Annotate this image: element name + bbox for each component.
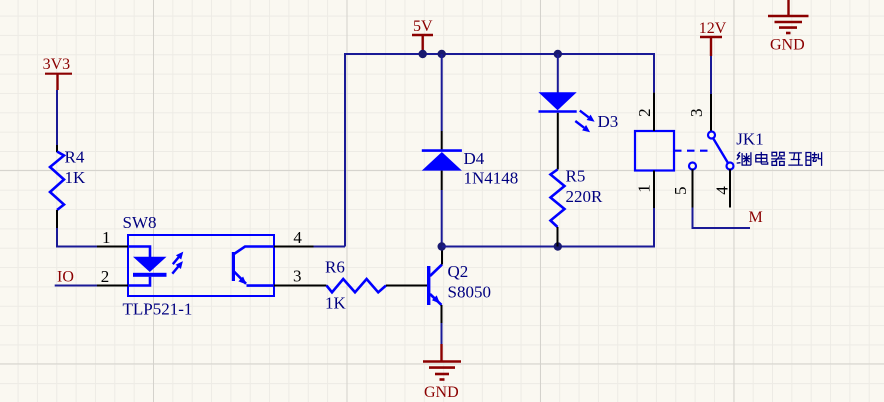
svg-text:3: 3 — [687, 109, 706, 118]
resistor R6 — [325, 258, 427, 313]
D3 emission arrows — [575, 111, 594, 133]
svg-text:3V3: 3V3 — [43, 56, 71, 73]
optocoupler SW8 box — [123, 213, 275, 319]
dashed link coil to contact — [674, 150, 708, 152]
svg-text:R4: R4 — [65, 148, 85, 167]
svg-text:JK1: JK1 — [736, 130, 763, 149]
pin 5 relay — [671, 169, 692, 207]
ground GND top — [768, 0, 809, 53]
wire 12V to pin3 — [710, 56, 712, 94]
wire Q2 emitter to GND — [441, 323, 443, 344]
wire D4 to junction — [441, 190, 443, 247]
LED inside SW8 — [128, 247, 167, 286]
resistor R5 — [551, 167, 604, 247]
junction D4 top — [438, 50, 446, 58]
svg-text:R5: R5 — [566, 167, 586, 186]
wire top 5V rail — [314, 51, 655, 247]
svg-text:1K: 1K — [325, 294, 347, 313]
svg-text:4: 4 — [293, 228, 302, 247]
svg-text:2: 2 — [635, 108, 654, 117]
svg-text:1K: 1K — [65, 168, 87, 187]
wire R4 to SW8 pin1 — [57, 228, 97, 247]
junction R5 bottom — [554, 242, 562, 250]
transistor Q2 — [427, 248, 491, 323]
svg-text:D4: D4 — [464, 149, 485, 168]
svg-text:5V: 5V — [413, 18, 433, 35]
svg-text:GND: GND — [424, 384, 459, 401]
pin 1 — [97, 228, 128, 247]
resistor R4 — [50, 145, 86, 228]
svg-text:2: 2 — [101, 267, 110, 286]
pin 2 — [97, 267, 128, 286]
svg-text:220R: 220R — [566, 187, 604, 206]
svg-text:5: 5 — [671, 187, 690, 196]
pin 3 relay — [687, 94, 711, 132]
contact circle pin5 — [689, 163, 696, 170]
pin 1 relay — [635, 171, 655, 209]
wire rail to D4 — [441, 54, 443, 131]
svg-text:12V: 12V — [699, 20, 727, 37]
wire bottom rail to relay — [442, 208, 654, 247]
svg-text:D3: D3 — [598, 112, 619, 131]
power 3V3 — [43, 56, 72, 90]
contact common circle — [708, 132, 715, 139]
svg-text:1N4148: 1N4148 — [464, 169, 519, 188]
wire 3V3 to R4 — [56, 90, 58, 145]
pin 3 — [274, 267, 327, 286]
power 12V — [699, 20, 727, 56]
pin D3 to R5 — [557, 113, 559, 170]
svg-text:IO: IO — [57, 269, 74, 286]
LED D3 — [539, 92, 619, 131]
svg-text:4: 4 — [712, 186, 731, 195]
diode D4 1N4148 — [422, 131, 518, 190]
svg-text:3: 3 — [293, 267, 302, 286]
svg-text:TLP521-1: TLP521-1 — [123, 300, 193, 319]
ground GND bottom — [423, 344, 461, 401]
pin 2 relay — [635, 93, 654, 131]
relay coil JK1 box — [635, 131, 674, 171]
junction D3 top — [554, 50, 562, 58]
svg-text:1: 1 — [102, 228, 111, 247]
svg-text:S8050: S8050 — [448, 283, 491, 302]
phototransistor inside SW8 — [232, 247, 274, 286]
wire pin5 to M — [693, 208, 751, 229]
svg-text:1: 1 — [635, 184, 654, 193]
comment 继电器五脚 (vector strokes) — [737, 152, 822, 166]
pin 4 — [274, 228, 314, 247]
svg-text:SW8: SW8 — [123, 213, 157, 232]
switch arm — [713, 138, 728, 163]
junction 5V stub — [419, 50, 427, 58]
pin 4 relay — [712, 169, 731, 207]
svg-text:M: M — [749, 209, 763, 226]
svg-text:GND: GND — [770, 36, 805, 53]
power 5V — [412, 18, 433, 51]
wire IO to SW8 pin2 — [55, 285, 97, 287]
wire rail to D3 — [557, 54, 559, 93]
svg-text:Q2: Q2 — [448, 262, 469, 281]
junction Q2 collector node — [438, 242, 446, 250]
svg-text:R6: R6 — [325, 258, 345, 277]
LED emission arrows — [172, 252, 183, 274]
contact NO circle pin4 — [727, 163, 734, 170]
